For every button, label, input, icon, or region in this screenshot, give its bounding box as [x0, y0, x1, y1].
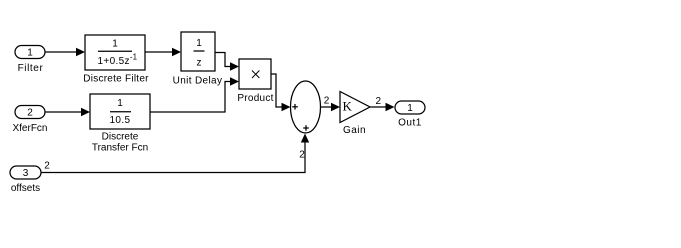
svg-text:Discrete: Discrete — [102, 132, 139, 143]
svg-text:K: K — [343, 99, 353, 114]
outport 1 (Out1) — [395, 101, 425, 114]
svg-text:Gain: Gain — [343, 125, 366, 136]
svg-text:3: 3 — [23, 168, 29, 179]
inport 1 (Filter) — [15, 46, 45, 59]
svg-text:offsets: offsets — [11, 183, 40, 194]
svg-text:Discrete Filter: Discrete Filter — [83, 74, 149, 85]
svg-text:Unit Delay: Unit Delay — [173, 75, 223, 86]
block: Unit Delay (1/z) — [181, 32, 215, 71]
block: Gain (K) — [340, 92, 370, 123]
svg-text:z: z — [197, 58, 202, 69]
svg-text:2: 2 — [27, 108, 33, 119]
block: Discrete Filter (1/(1+0.5z^-1)) — [85, 35, 145, 70]
svg-text:Product: Product — [237, 93, 273, 104]
wire: Discrete Transfer Fcn to Product input 2 — [150, 77, 239, 112]
svg-text:1: 1 — [117, 98, 123, 109]
inport 3 (offsets) — [10, 166, 41, 179]
block: Discrete Transfer Fcn (1/10.5) — [90, 94, 150, 129]
svg-text:1: 1 — [112, 39, 118, 50]
inport 2 (XferFcn) — [15, 106, 45, 119]
svg-text:2: 2 — [299, 150, 305, 161]
svg-text:10.5: 10.5 — [109, 115, 130, 126]
wire: Sum to Gain (signal width 2) — [321, 95, 341, 111]
svg-text:XferFcn: XferFcn — [12, 123, 47, 134]
svg-text:1: 1 — [196, 38, 202, 49]
svg-text:2: 2 — [44, 161, 50, 172]
wire: XferFcn to Discrete Transfer Fcn — [45, 108, 90, 116]
wire: Filter to Discrete Filter — [45, 48, 85, 56]
svg-text:1: 1 — [27, 48, 33, 59]
wire: Gain to Out1 (signal width 2) — [370, 96, 395, 111]
block: Sum — [291, 81, 321, 133]
svg-text:1: 1 — [407, 103, 413, 114]
wire: Product to Sum input 1 — [271, 74, 291, 111]
svg-text:2: 2 — [324, 95, 330, 106]
svg-text:Out1: Out1 — [398, 118, 422, 129]
wire: Discrete Filter to Unit Delay — [145, 48, 181, 56]
svg-text:2: 2 — [376, 96, 382, 107]
label: Discrete Transfer Fcn — [92, 132, 148, 154]
svg-text:Filter: Filter — [18, 63, 44, 74]
wire: offsets to Sum input 2 (signal width 2) — [41, 134, 309, 173]
block: Product — [239, 59, 271, 89]
wire: Unit Delay to Product input 1 — [215, 53, 239, 71]
svg-text:Transfer Fcn: Transfer Fcn — [92, 143, 148, 154]
